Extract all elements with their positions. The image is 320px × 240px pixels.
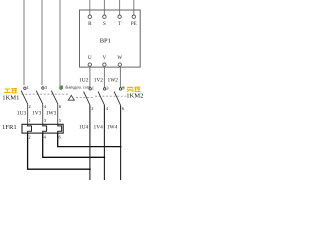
svg-text:1W3: 1W3 (46, 110, 57, 116)
svg-text:3: 3 (106, 86, 109, 91)
junction V (104, 156, 106, 158)
svg-text:1: 1 (92, 86, 95, 91)
svg-text:6: 6 (59, 135, 62, 140)
svg-text:PE: PE (131, 22, 137, 27)
svg-text:1U2: 1U2 (79, 78, 89, 84)
svg-text:4: 4 (44, 104, 47, 109)
heater element 2 (43, 124, 47, 133)
wire to BP1 PE (133, 0, 135, 15)
KM2 pole 3 contact (119, 88, 121, 90)
wire W BP1 to KM2 (119, 66, 121, 87)
heater element 1 (28, 124, 32, 133)
wire U BP1 to KM2 (89, 66, 91, 87)
wire KM1 pole3 to FR (57, 104, 59, 124)
svg-text:6: 6 (59, 104, 62, 109)
terminal R (88, 15, 91, 18)
svg-text:1U3: 1U3 (17, 110, 27, 116)
wire KM1 pole2 to FR (42, 104, 44, 124)
svg-text:W: W (117, 56, 122, 61)
wire KM2 pole2 down (103, 105, 105, 180)
svg-text:1U4: 1U4 (79, 125, 89, 131)
wire FR pin2 elbow to U (28, 133, 90, 169)
junction W (120, 146, 122, 148)
svg-text:1KM2: 1KM2 (126, 93, 143, 100)
svg-text:S: S (103, 22, 106, 27)
KM2 pole 2 contact (104, 88, 106, 90)
svg-text:1V3: 1V3 (32, 110, 42, 116)
heater element 3 (58, 124, 62, 133)
wire FR pin4 elbow to V (43, 133, 105, 157)
svg-text:R: R (88, 22, 92, 27)
svg-text:3: 3 (45, 85, 48, 90)
svg-text:4: 4 (44, 135, 47, 140)
wire KM2 pole3 down (120, 105, 122, 180)
junction U (89, 168, 91, 170)
KM1 pole 3 contact (60, 87, 62, 89)
svg-text:6: 6 (122, 106, 125, 111)
terminal T (118, 15, 121, 18)
label 工频 (yellow) (4, 89, 17, 93)
svg-text:U: U (88, 56, 92, 61)
thermal relay 1FR1 box (22, 124, 63, 133)
wire FR pin6 elbow to W (58, 133, 121, 147)
wire L1 supply (23, 0, 25, 85)
svg-text:1V4: 1V4 (94, 125, 104, 131)
KM2 pole 1 contact (89, 88, 91, 90)
KM1 pole 1 contact (24, 87, 26, 89)
watermark green logo + text (59, 84, 91, 89)
wire KM1 pole1 to FR (27, 104, 29, 124)
label 变频 (yellow) (127, 87, 140, 92)
contactor 1KM2 linkage dashes (76, 96, 94, 98)
svg-text:1: 1 (29, 118, 32, 123)
terminal PE (132, 15, 135, 18)
wire L2 supply (41, 0, 43, 85)
svg-text:2: 2 (28, 135, 31, 140)
svg-text:BP1: BP1 (100, 38, 111, 45)
KM1 pole 2 contact (42, 87, 44, 89)
terminal S (103, 15, 106, 18)
svg-text:V: V (103, 56, 107, 61)
svg-text:1FR1: 1FR1 (2, 124, 17, 131)
svg-text:3: 3 (44, 118, 47, 123)
inverter BP1 box (80, 10, 141, 67)
svg-text:2: 2 (28, 104, 31, 109)
green watermark bit right (122, 87, 125, 89)
wire to BP1 T (119, 0, 121, 15)
svg-text:4: 4 (106, 106, 109, 111)
svg-text:1W4: 1W4 (107, 125, 118, 131)
svg-text:5: 5 (59, 118, 62, 123)
wire L3 supply (59, 0, 61, 85)
svg-text:1KM1: 1KM1 (2, 94, 19, 101)
svg-text:1W2: 1W2 (108, 78, 119, 84)
svg-text:2: 2 (91, 106, 94, 111)
wire to BP1 S (103, 0, 105, 15)
wire V BP1 to KM2 (103, 66, 105, 87)
svg-text:1: 1 (27, 85, 30, 90)
svg-text:1V2: 1V2 (94, 78, 104, 84)
wire to BP1 R (89, 0, 91, 15)
svg-text:T: T (118, 22, 121, 27)
watermark triangle (68, 95, 74, 100)
wire KM2 pole1 down (89, 105, 91, 180)
contactor 1KM1 linkage dashes (22, 93, 69, 95)
svg-text:dianqgou. com: dianqgou. com (65, 84, 91, 89)
